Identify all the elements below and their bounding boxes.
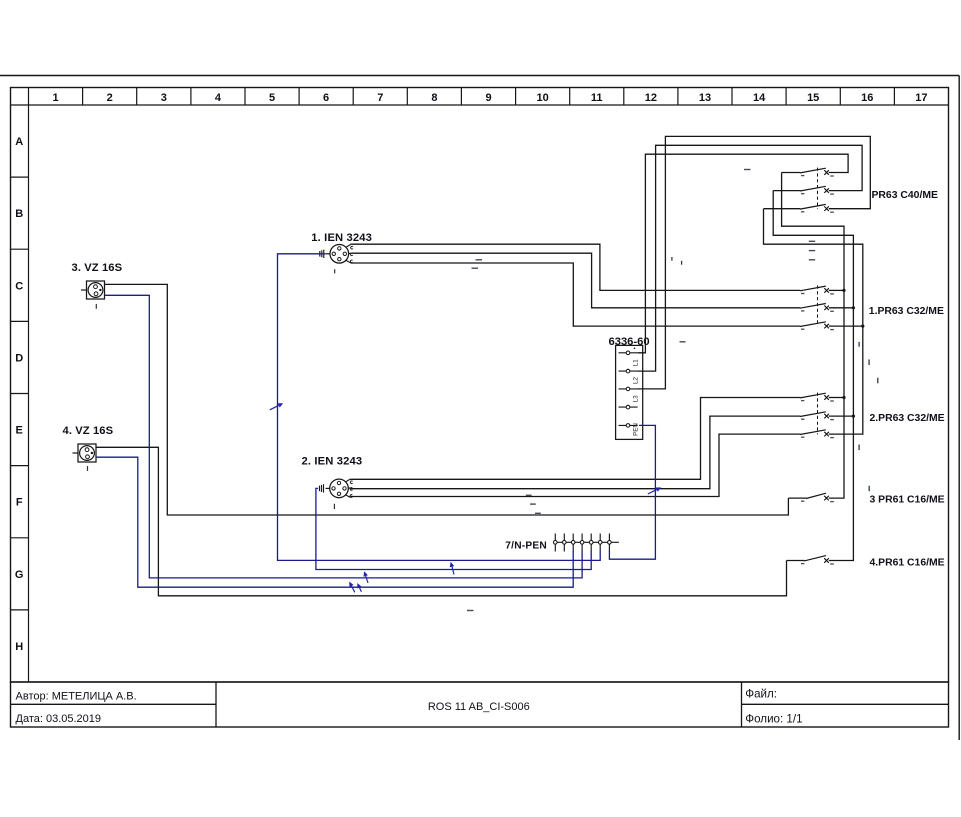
flow arrow on X3 neutral run (366, 576, 368, 583)
svg-text:1. IEN 3243: 1. IEN 3243 (311, 232, 372, 244)
wire J1 pin3 -> QF1 pole3 (351, 263, 575, 326)
socket X4 "4. VZ 16S" (73, 444, 97, 471)
svg-text:L2: L2 (632, 377, 639, 384)
breaker QF2 pole 2 (710, 412, 834, 420)
flow arrow on J2 neutral run (452, 567, 454, 575)
svg-text:PEN: PEN (632, 423, 639, 436)
svg-text:PR63 C40/ME: PR63 C40/ME (872, 190, 938, 201)
junction QF1 pole1 / feeder A (842, 289, 845, 292)
wire mark dashes near J2 lines (526, 494, 532, 496)
svg-text:1: 1 (53, 92, 59, 104)
breaker QF0 pole 2 (773, 186, 834, 194)
wire socket X4 neutral -> bus circle 3 (blue) (96, 457, 573, 587)
svg-text:4.PR61 C16/ME: 4.PR61 C16/ME (870, 558, 945, 569)
svg-text:C: C (15, 280, 23, 292)
svg-text:L1: L1 (632, 359, 639, 366)
svg-text:B: B (15, 208, 23, 220)
wire J2 pin2 -> QF2 pole2 (351, 416, 711, 489)
wire mark dashes near J1 lines (476, 259, 483, 261)
svg-text:9: 9 (485, 92, 491, 104)
svg-text:5: 5 (269, 92, 275, 104)
svg-text:7: 7 (377, 92, 383, 104)
svg-text:F: F (16, 497, 23, 509)
svg-text:2.PR63 C32/ME: 2.PR63 C32/ME (870, 413, 945, 424)
breaker QF0 linkage (dashed) (817, 168, 819, 209)
breaker QF2 "2.PR63 C32/ME" pole 1 (701, 393, 834, 401)
svg-text:14: 14 (753, 92, 766, 104)
svg-text:3 PR61 C16/ME: 3 PR61 C16/ME (870, 495, 945, 506)
breaker QF1 pole 3 (573, 322, 834, 330)
svg-text:D: D (15, 352, 23, 364)
connector J2 "2. IEN 3243" (320, 479, 353, 509)
svg-text:4. VZ 16S: 4. VZ 16S (63, 425, 114, 437)
wire socket X4 phase -> breaker QF4 lead (96, 447, 787, 596)
flow arrow on PEN riser (648, 490, 657, 494)
bus 7/N-PEN (553, 534, 619, 552)
flow arrow on J1 neutral riser (270, 405, 279, 409)
wire QF0 pole3 out -> feeder bus C (QF1/QF2) (764, 209, 863, 434)
wire QF0 pole2 out -> feeder bus B (QF1/QF2/QF4) (773, 191, 853, 561)
wire TB L2 -> QF0 pole2 input (638, 145, 863, 371)
breaker QF1 "1.PR63 C32/ME" pole 1 (600, 286, 834, 294)
breaker QF2 pole 3 (719, 430, 834, 438)
breaker QF2 linkage (dashed) (817, 393, 819, 435)
svg-text:ROS 11 AB_CI-S006: ROS 11 AB_CI-S006 (428, 701, 530, 713)
title block (11, 682, 949, 727)
wire QF2 pole1 output branch (829, 397, 844, 399)
svg-text:8: 8 (431, 92, 437, 104)
svg-text:2: 2 (107, 92, 113, 104)
svg-text:1.PR63 C32/ME: 1.PR63 C32/ME (869, 306, 944, 317)
svg-text:10: 10 (536, 92, 548, 104)
wire J2 pin1 -> QF2 pole1 (350, 398, 701, 480)
svg-text:G: G (15, 569, 24, 581)
breaker QF0 pole 3 (764, 204, 834, 212)
svg-text:11: 11 (591, 92, 603, 104)
breaker QF1 pole 2 (592, 304, 834, 312)
breaker QF3 "3 PR61 C16/ME" (788, 493, 833, 501)
wire socket X3 neutral -> bus circle 4 (blue) (105, 295, 583, 578)
svg-text:17: 17 (915, 92, 927, 104)
wire tick marks near J1 lines (671, 257, 673, 261)
wire socket X3 phase -> breaker QF3 lead (105, 284, 789, 515)
wire TB L1 -> QF0 pole1 input (638, 154, 849, 353)
svg-text:15: 15 (807, 92, 819, 104)
junction QF1 pole3 / feeder C (861, 325, 864, 328)
breaker QF0 "PR63 C40/ME" pole 1 (782, 168, 834, 176)
svg-text:A: A (15, 136, 23, 148)
wire mark dash near TB label (680, 341, 686, 343)
wire QF2 pole2 output branch (829, 415, 854, 417)
svg-text:4: 4 (215, 92, 222, 104)
wire J2 neutral -> bus circle 5 (blue) (316, 488, 591, 569)
wire TB PEN -> bus circle 7 (blue) (609, 425, 655, 559)
wire QF1 pole1 output branch (829, 289, 844, 291)
wire J2 pin3 -> QF2 pole3 (350, 434, 720, 496)
wire J1 pin2 -> QF1 pole2 (351, 253, 593, 308)
breaker QF1 linkage (dashed) (817, 286, 819, 327)
junction QF2 pole2 / feeder B (852, 415, 855, 418)
svg-text:Файл:: Файл: (745, 688, 777, 701)
svg-text:6336-60: 6336-60 (609, 336, 650, 348)
terminal block TB "6336-60" (616, 345, 643, 439)
wire QF1 pole3 output branch (829, 325, 863, 327)
wire tick marks right side (858, 342, 860, 347)
svg-text:Фолио: 1/1: Фолио: 1/1 (745, 712, 802, 725)
wire J1 neutral -> bus circle 6 (blue) (319, 253, 326, 255)
breaker QF4 "4.PR61 C16/ME" (787, 556, 834, 564)
svg-text:12: 12 (645, 92, 657, 104)
wire J1 pin1 -> QF1 pole1 (351, 244, 601, 290)
svg-text:3. VZ 16S: 3. VZ 16S (72, 262, 123, 274)
junction QF2 pole1 / feeder A (842, 396, 845, 399)
svg-text:16: 16 (861, 92, 873, 104)
svg-text:7/N-PEN: 7/N-PEN (505, 541, 547, 552)
flow arrow 1 on X4 neutral run (352, 586, 355, 592)
svg-text:E: E (16, 425, 23, 437)
svg-text:L3: L3 (632, 395, 639, 402)
wire mark dashes on feeder risers (809, 240, 815, 242)
wire QF1 pole2 output branch (829, 307, 854, 309)
svg-text:2. IEN 3243: 2. IEN 3243 (302, 456, 363, 468)
flow arrow 2 on X4 neutral run (359, 588, 361, 592)
wire mark dash left of QF0 (744, 169, 751, 171)
junction QF1 pole2 / feeder B (852, 306, 855, 309)
svg-text:13: 13 (699, 92, 711, 104)
socket X3 "3. VZ 16S" (81, 281, 105, 309)
connector J1 "1. IEN 3243" (320, 245, 353, 274)
svg-text:6: 6 (323, 92, 329, 104)
wire TB L3 -> QF0 pole3 input (638, 136, 871, 389)
svg-text:Дата: 03.05.2019: Дата: 03.05.2019 (16, 713, 102, 725)
svg-text:Автор: МЕТЕЛИЦА А.В.: Автор: МЕТЕЛИЦА А.В. (16, 691, 137, 703)
svg-text:H: H (15, 641, 23, 653)
wire mark dash bottom (467, 610, 474, 612)
svg-text:3: 3 (161, 92, 167, 104)
wire QF0 pole1 out -> feeder bus A (QF1/QF2/QF3) (782, 173, 844, 499)
